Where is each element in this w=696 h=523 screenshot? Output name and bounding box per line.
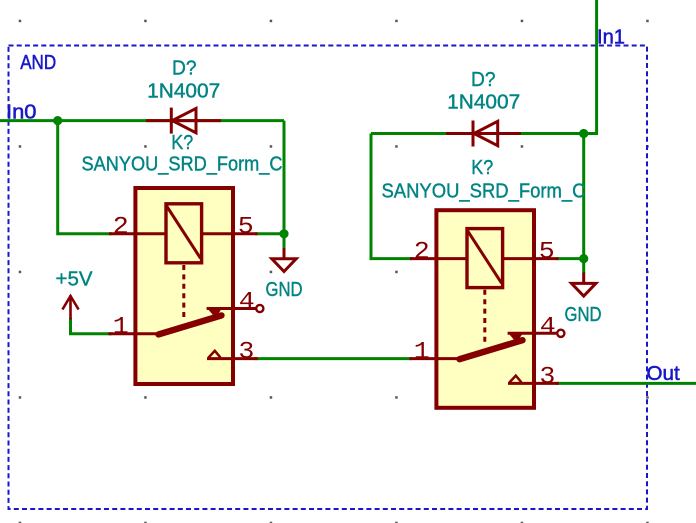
svg-text:4: 4 xyxy=(239,287,255,315)
svg-text:GND: GND xyxy=(266,278,303,301)
svg-text:SANYOU_SRD_Form_C: SANYOU_SRD_Form_C xyxy=(82,152,283,175)
svg-text:K?: K? xyxy=(171,131,193,154)
svg-text:AND: AND xyxy=(20,51,56,74)
svg-text:3: 3 xyxy=(539,362,555,390)
svg-text:SANYOU_SRD_Form_C: SANYOU_SRD_Form_C xyxy=(382,180,586,203)
svg-text:D?: D? xyxy=(471,68,496,91)
svg-text:5: 5 xyxy=(238,212,254,240)
svg-text:Out: Out xyxy=(647,362,680,385)
svg-text:In0: In0 xyxy=(6,100,37,123)
svg-text:3: 3 xyxy=(238,337,254,365)
svg-text:In1: In1 xyxy=(597,26,625,49)
svg-text:2: 2 xyxy=(414,237,430,265)
svg-text:D?: D? xyxy=(172,56,197,79)
svg-text:1: 1 xyxy=(414,337,430,365)
svg-text:+5V: +5V xyxy=(56,268,93,291)
svg-text:1N4007: 1N4007 xyxy=(147,79,220,102)
svg-text:1N4007: 1N4007 xyxy=(447,90,520,113)
svg-text:5: 5 xyxy=(539,237,555,265)
svg-text:K?: K? xyxy=(471,156,493,179)
svg-text:4: 4 xyxy=(540,312,556,340)
svg-text:2: 2 xyxy=(113,212,129,240)
svg-text:1: 1 xyxy=(113,312,129,340)
svg-text:GND: GND xyxy=(565,303,602,326)
